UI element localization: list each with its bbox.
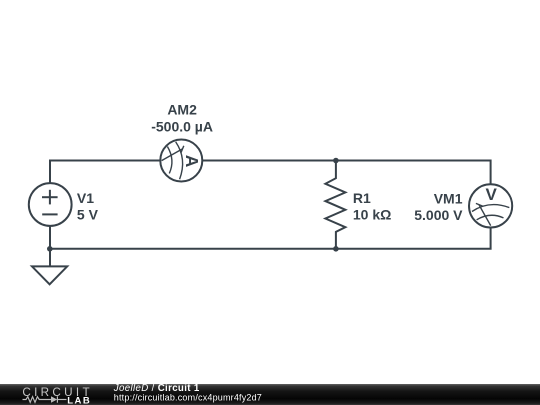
- svg-text:A: A: [182, 155, 202, 168]
- svg-text:10 kΩ: 10 kΩ: [353, 207, 391, 223]
- svg-text:V: V: [486, 185, 498, 204]
- svg-text:V1: V1: [77, 190, 94, 206]
- svg-text:-500.0 µA: -500.0 µA: [151, 118, 213, 134]
- svg-text:5 V: 5 V: [77, 206, 99, 222]
- svg-text:http://circuitlab.com/cx4pumr4: http://circuitlab.com/cx4pumr4fy2d7: [114, 392, 262, 402]
- svg-text:AM2: AM2: [167, 102, 197, 118]
- svg-text:VM1: VM1: [434, 191, 463, 207]
- svg-text:R1: R1: [353, 190, 371, 206]
- svg-text:5.000 V: 5.000 V: [414, 207, 463, 223]
- svg-text:LAB: LAB: [67, 395, 91, 405]
